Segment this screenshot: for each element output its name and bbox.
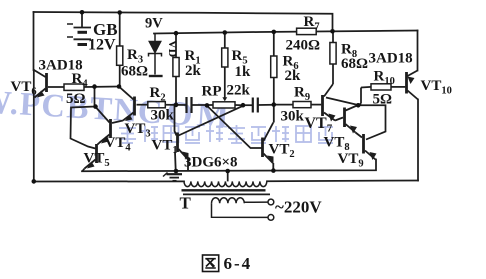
svg-text:2k: 2k (285, 68, 302, 84)
svg-text:30k: 30k (151, 108, 175, 124)
node R1 top on rail 2 (174, 31, 179, 36)
transistor VT8 (345, 106, 363, 138)
svg-text:9V: 9V (145, 16, 163, 32)
transistor VT5 (83, 144, 97, 171)
node RP left / cross-wire A start (205, 103, 210, 108)
watermark hanzi row (119, 125, 333, 143)
transformer core (182, 189, 266, 191)
svg-text:5Ω: 5Ω (66, 91, 86, 107)
node battery top on rail 1 (80, 10, 85, 15)
svg-text:~220V: ~220V (275, 198, 322, 217)
resistor R10 (358, 84, 405, 105)
watermark latin text W.PCBTN.COM (0, 83, 234, 135)
node R1 bottom / VT1 collector (174, 103, 179, 108)
wire cross-coupling diagonal A (207, 106, 262, 148)
node bottom-left corner (32, 179, 37, 184)
svg-text:3DG6×8: 3DG6×8 (184, 155, 238, 171)
transistor VT3 (112, 88, 135, 124)
node R3 top on rail 1 (117, 10, 122, 15)
RP wiper arrow (222, 97, 227, 101)
wire left border lower (33, 70, 35, 182)
svg-text:1k: 1k (235, 64, 252, 80)
resistor R8 (324, 31, 336, 96)
wire top rail 2 (9V rail) (154, 31, 418, 34)
wire right loop (R10 to VT9 collector) (358, 105, 385, 139)
node rail1-rail2 junction with R8 (330, 29, 335, 34)
resistor R9 (274, 102, 321, 108)
transformer T secondary winding (212, 198, 268, 218)
wire right border lower (417, 100, 419, 181)
wire top rail 1 (34, 12, 333, 32)
svg-text:30k: 30k (281, 109, 305, 125)
node VT1 emitter / ground on bus A (174, 169, 179, 174)
transistor VT1 (175, 105, 189, 171)
node R5 top on rail 2 (223, 30, 228, 35)
wire cross-coupling diagonal B (179, 106, 244, 136)
resistor R6 (271, 32, 277, 105)
terminal circles (268, 199, 274, 205)
wire right border upper (417, 31, 419, 71)
capacitor C1 (176, 97, 213, 113)
wire bottom rail B right (267, 180, 418, 183)
node R6 top on rail 2 (272, 30, 277, 35)
node R4 right junction (92, 84, 97, 89)
wire R4 junction branch down (71, 87, 96, 149)
node VT2 emitter on bus A (271, 168, 276, 173)
transistor VT2 (263, 105, 274, 171)
svg-text:VD: VD (166, 40, 180, 58)
resistor R3 (117, 12, 123, 86)
resistor R5 (222, 33, 228, 99)
zener diode VD (149, 34, 163, 77)
svg-text:68Ω: 68Ω (341, 56, 368, 72)
wire left border upper (33, 12, 35, 70)
svg-text:2k: 2k (185, 63, 202, 79)
transistor VT10 (407, 71, 419, 100)
svg-text:T: T (180, 194, 192, 213)
node VT4 collector junction (93, 104, 98, 109)
transistor VT6 (34, 70, 47, 98)
node transformer center tap on bus A (225, 169, 230, 174)
svg-text:12V: 12V (88, 37, 116, 54)
svg-text:68Ω: 68Ω (121, 64, 148, 80)
battery GB (67, 12, 91, 44)
transistor VT9 (364, 134, 376, 160)
svg-text:240Ω: 240Ω (286, 38, 321, 54)
wire emitter bus A (82, 160, 376, 172)
svg-text:6-4: 6-4 (224, 254, 253, 273)
node R6 bottom / VT2 collector (272, 102, 277, 107)
transistor VT4 (97, 108, 111, 145)
resistor R1 (173, 33, 179, 105)
wire center tap (227, 171, 229, 181)
resistor R7 (297, 28, 317, 34)
capacitor C2 (243, 98, 274, 113)
resistor R4 (48, 84, 119, 90)
transformer T primary winding (184, 181, 267, 186)
svg-text:3AD18: 3AD18 (369, 51, 413, 67)
transistor VT7 (323, 95, 344, 121)
wire VT7 collector to node (326, 98, 357, 105)
ground (163, 173, 182, 181)
node RP right / cross-wire B start (241, 103, 246, 108)
node R3 bottom / VT3 collector (117, 84, 122, 89)
wire bottom rail B left (34, 180, 185, 182)
svg-text:22k: 22k (227, 83, 251, 99)
resistor R2 (137, 102, 177, 108)
caption 图 6-4 (203, 255, 219, 272)
node VT8 collector / R10 junction (356, 103, 361, 108)
svg-text:RP: RP (202, 84, 222, 100)
potentiometer RP (213, 102, 235, 108)
